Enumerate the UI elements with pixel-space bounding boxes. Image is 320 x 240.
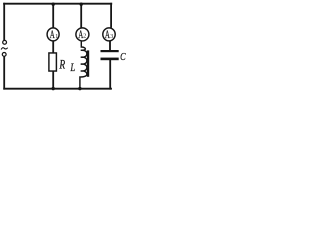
- ammeter A2: [76, 28, 89, 41]
- inductor core bar: [87, 50, 89, 76]
- svg-text:2: 2: [83, 34, 86, 40]
- junction dot bottom branch1: [52, 87, 55, 90]
- wire branch1 bottom (R to bottom wire): [52, 71, 54, 89]
- AC source tilde ~: [1, 48, 8, 50]
- wire top: [3, 3, 112, 5]
- junction dot top branch1: [52, 2, 55, 5]
- svg-text:A: A: [50, 27, 55, 41]
- ammeter A3: [103, 28, 115, 41]
- svg-text:C: C: [120, 52, 126, 63]
- wire branch3 mid (A3 to capacitor): [109, 40, 111, 51]
- inductor L coil: [80, 41, 87, 89]
- wire branch1 mid (A1 to R): [52, 40, 54, 53]
- junction dot top branch2: [80, 2, 83, 5]
- AC source terminal upper: [3, 40, 7, 44]
- wire branch2 top: [80, 4, 82, 30]
- capacitor C plate bottom: [101, 58, 119, 61]
- wire left lower: [3, 56, 5, 89]
- wire bottom: [3, 88, 112, 90]
- capacitor C plate top: [101, 50, 119, 52]
- wire right edge: [110, 3, 112, 28]
- svg-text:1: 1: [55, 34, 58, 40]
- svg-text:3: 3: [110, 34, 113, 40]
- svg-text:L: L: [70, 60, 76, 74]
- wire branch1 top: [52, 4, 54, 30]
- wire branch3 bottom (capacitor to bottom wire): [109, 60, 111, 90]
- ammeter A1: [47, 28, 59, 41]
- junction dot bottom branch2: [78, 87, 81, 90]
- wire left upper: [3, 3, 5, 40]
- resistor R box: [49, 53, 57, 71]
- AC source terminal lower: [2, 53, 6, 57]
- svg-text:R: R: [59, 58, 66, 72]
